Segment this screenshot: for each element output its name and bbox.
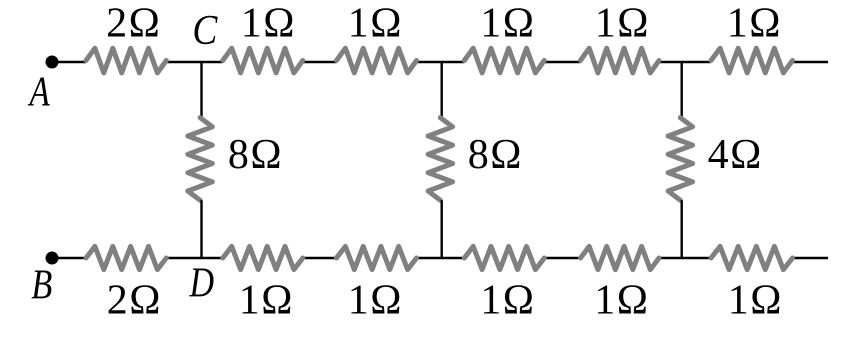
svg-text:C: C	[192, 7, 217, 53]
svg-text:8Ω: 8Ω	[468, 132, 523, 178]
resistor 1Ω top #3	[464, 48, 544, 73]
resistor 8Ω branch (C-D)	[188, 118, 213, 201]
svg-text:1Ω: 1Ω	[728, 278, 783, 324]
svg-text:1Ω: 1Ω	[480, 278, 535, 324]
wire top rail segment 2	[166, 61, 223, 63]
wire bottom rail segment 7	[793, 257, 829, 259]
svg-text:4Ω: 4Ω	[708, 132, 763, 178]
resistor 2Ω bottom	[86, 246, 166, 269]
resistor 1Ω bottom #5	[711, 246, 793, 269]
wire top rail segment 7	[793, 61, 829, 63]
terminal B label	[31, 263, 52, 309]
wire top rail segment 1	[57, 61, 86, 63]
wire bottom of 8Ω branch middle	[441, 200, 443, 258]
resistor 1Ω bottom #4	[581, 246, 660, 269]
node C label	[192, 7, 217, 53]
svg-text:1Ω: 1Ω	[241, 1, 296, 47]
svg-text:1Ω: 1Ω	[594, 278, 649, 324]
terminal A dot	[46, 56, 59, 69]
wire bottom of 4Ω branch right	[681, 200, 683, 258]
wire top of 8Ω branch (C-D)	[200, 62, 202, 118]
svg-text:1Ω: 1Ω	[239, 278, 294, 324]
wire top of 8Ω branch middle	[441, 62, 443, 118]
wire bottom rail segment 4	[417, 257, 465, 259]
svg-text:2Ω: 2Ω	[106, 1, 161, 47]
svg-text:1Ω: 1Ω	[348, 1, 403, 47]
resistor 1Ω top #1	[223, 48, 303, 73]
resistor 8Ω branch middle	[428, 118, 453, 201]
wire bottom rail segment 1	[57, 257, 86, 259]
wire bottom rail segment 5	[544, 257, 580, 259]
wire bottom rail segment 6	[659, 257, 711, 259]
resistor 2Ω top	[86, 48, 166, 73]
resistor 1Ω top #2	[337, 48, 417, 73]
wire top rail segment 6	[659, 61, 711, 63]
svg-text:B: B	[31, 263, 52, 309]
node D label	[189, 260, 215, 306]
resistor 1Ω top #5	[711, 48, 793, 73]
resistor 4Ω branch right	[668, 118, 693, 201]
wire bottom rail segment 2	[166, 257, 223, 259]
resistor 1Ω bottom #3	[464, 246, 544, 269]
wire top rail segment 4	[417, 61, 465, 63]
svg-text:1Ω: 1Ω	[595, 1, 650, 47]
terminal B dot	[46, 252, 59, 265]
svg-text:1Ω: 1Ω	[480, 1, 535, 47]
wire bottom of 8Ω branch (C-D)	[200, 200, 202, 258]
wire top rail segment 5	[544, 61, 580, 63]
wire bottom rail segment 3	[303, 257, 337, 259]
svg-text:8Ω: 8Ω	[228, 132, 283, 178]
resistor 1Ω bottom #2	[337, 246, 417, 269]
svg-text:2Ω: 2Ω	[107, 278, 162, 324]
terminal A label	[27, 69, 51, 116]
wire top of 4Ω branch right	[681, 62, 683, 118]
resistor 1Ω bottom #1	[223, 246, 303, 269]
svg-text:A: A	[27, 69, 51, 116]
wire top rail segment 3	[303, 61, 337, 63]
svg-text:1Ω: 1Ω	[727, 1, 782, 47]
svg-text:D: D	[189, 260, 215, 306]
resistor 1Ω top #4	[581, 48, 660, 73]
svg-text:1Ω: 1Ω	[348, 278, 403, 324]
